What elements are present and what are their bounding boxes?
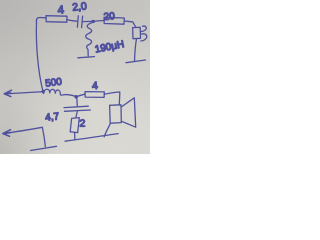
earphone BF1 body (small rectangle): [133, 27, 141, 38]
svg-text:20: 20: [103, 11, 115, 23]
wire node C to resistor R3: [76, 94, 85, 97]
capacitor C1 value 2,0: [76, 16, 79, 27]
wire R2 to earphone BF1: [124, 21, 136, 28]
wire C2 to resistor R4: [76, 112, 78, 118]
ground (bottom left): [31, 146, 57, 150]
wire C1 to node A: [82, 20, 92, 22]
svg-text:500: 500: [45, 77, 63, 90]
resistor R1 value 4 (top left): [46, 16, 67, 23]
svg-text:4: 4: [92, 80, 99, 92]
inductor L1 value 190uH (vertical coil from node A): [86, 22, 93, 56]
node C junction dot (after L2): [74, 95, 78, 99]
wire speaker bottom lead down: [104, 123, 110, 137]
svg-text:2: 2: [80, 118, 86, 130]
capacitor C2 value 4,7 top plate: [64, 106, 88, 107]
wire node C down to capacitor C2: [76, 97, 79, 106]
wire R3 to speaker corner: [104, 92, 120, 105]
resistor R2 value 20: [104, 17, 124, 24]
wire arrow line (left output terminal, middle): [5, 92, 44, 94]
arrowhead left middle: [4, 90, 11, 96]
inductor L2 value 500 (three humps): [44, 89, 76, 96]
earphone BF1 lower squiggle: [141, 34, 147, 41]
wire node A to resistor R2: [93, 20, 104, 23]
resistor R4 value 2 (vertical): [70, 118, 79, 133]
resistor R3 value 4 (horizontal): [85, 92, 104, 98]
node A junction dot: [92, 20, 95, 23]
svg-text:4,7: 4,7: [45, 111, 60, 123]
arrowhead left bottom: [3, 130, 11, 137]
wire arrow line (left terminal, bottom): [3, 127, 42, 133]
ground (right, under BF1): [126, 60, 146, 63]
svg-text:2,0: 2,0: [72, 0, 88, 13]
capacitor C1 right plate: [82, 16, 83, 27]
speaker BA1 body rectangle: [110, 105, 122, 123]
paper background: [0, 0, 150, 154]
wire R4 to bottom rail: [74, 133, 76, 140]
wire R1 to C1: [67, 20, 77, 22]
arrowhead bottom fill stroke: [5, 132, 10, 135]
node B junction dot (middle row left): [42, 90, 45, 93]
wire bottom rail: [65, 134, 118, 142]
ground (under L1): [78, 57, 95, 58]
speaker BA1 cone: [121, 98, 136, 127]
wire bottom terminal to ground: [42, 127, 45, 146]
earphone BF1 squiggle marks: [141, 26, 146, 31]
capacitor C2 bottom plate: [65, 110, 91, 111]
wire top-left corner to resistor R1: [36, 18, 46, 23]
wire vertical left bus from corner down to middle junction: [36, 22, 43, 92]
arrowhead middle fill stroke: [6, 92, 11, 95]
wire BF1 to right ground: [135, 39, 137, 61]
